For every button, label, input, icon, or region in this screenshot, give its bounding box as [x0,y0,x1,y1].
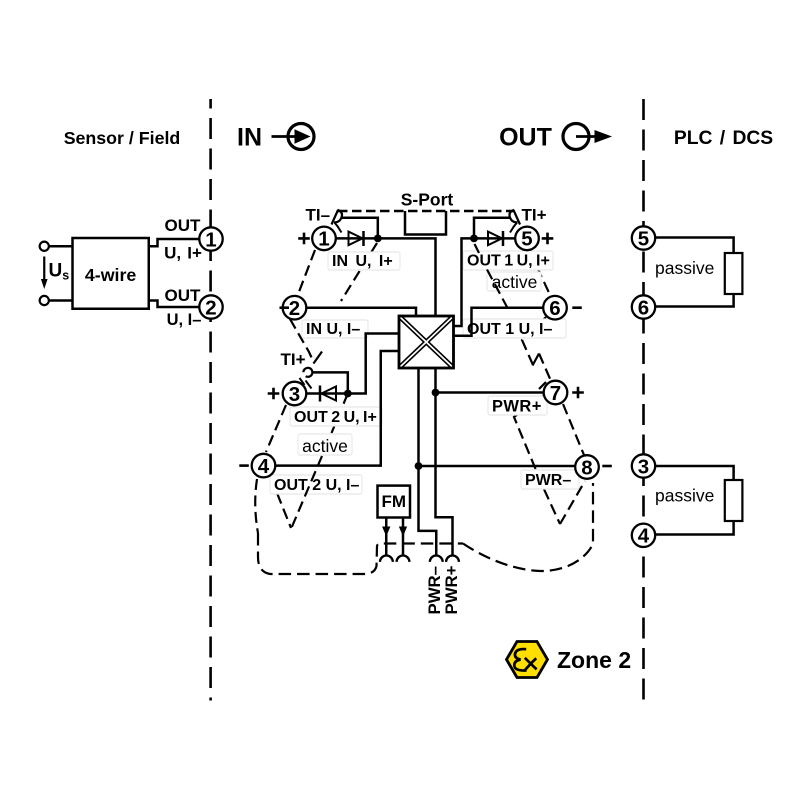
node PLC terminal 3 [632,454,655,477]
wire: source to 4-wire box bottom [49,299,73,302]
svg-text:5: 5 [521,228,532,251]
wire: dashed connector outline bottom [258,533,463,574]
IN header arrow icon [272,135,298,138]
isolator U1 cross [401,318,453,367]
svg-text:S-Port: S-Port [401,190,454,210]
sign + terminal 7 [572,387,584,399]
node terminal 8 [575,455,599,479]
sign - terminal 8 [602,465,612,468]
label background active right [487,272,541,291]
svg-text:1: 1 [318,228,329,251]
svg-text:OUT: OUT [165,216,202,235]
svg-text:PWR+: PWR+ [492,398,542,416]
svg-text:passive: passive [655,258,714,278]
svg-text:TI–: TI– [306,206,331,225]
wire: TI+ tap from junction B [313,372,348,393]
FM socket right [397,556,410,562]
node PLC terminal 4 [632,524,655,547]
diode V3 [488,232,502,246]
wire: dashed connector outline arc to terminal 8 plug [463,483,593,571]
svg-text:3: 3 [638,455,649,478]
FM arrow left [382,527,390,537]
TI+ probe pen at terminal 3 [303,368,312,377]
PWR+ socket [446,556,459,562]
wire: dashed plug notch below terminal 4 [271,478,291,528]
svg-text:6: 6 [638,296,649,319]
node terminal 6 [543,296,567,320]
node PLC terminal 5 [632,226,655,249]
svg-text:4-wire: 4-wire [85,265,137,285]
svg-text:TI+: TI+ [522,206,547,225]
label background OUT 2 U, I- [270,475,362,494]
wire: field-side dashed boundary line [209,99,212,701]
sign - terminal 4 [239,464,249,467]
wire: 4-wire box to field terminal 2 [149,301,200,308]
junction C (output 1) [470,235,478,243]
svg-text:IN: IN [237,124,262,152]
wire: dashed plug link terminal 7 to 8 [563,404,584,455]
wire: dashed link terminal 4 to connector outline [255,479,258,533]
svg-text:passive: passive [655,486,714,506]
wire: TI- tap from junction A [342,218,378,239]
svg-text:Zone 2: Zone 2 [557,647,631,673]
svg-text:U, I+: U, I+ [164,244,202,263]
wire: 4-wire box to field terminal 1 [149,239,200,246]
svg-text:4: 4 [258,455,270,478]
wire: dashed plug notch between terminals 6 and 7 [522,317,546,365]
svg-text:7: 7 [550,382,561,405]
svg-text:U, I–: U, I– [167,311,202,329]
svg-text:FM: FM [381,492,406,511]
isolator U1 box [399,316,454,368]
transmitter 4-wire box [73,238,149,309]
svg-text:PWR+: PWR+ [442,565,461,614]
svg-text:2: 2 [289,297,300,320]
svg-text:1: 1 [205,228,216,251]
svg-text:TI+: TI+ [281,350,306,369]
FM arrow right [399,527,407,537]
wire: terminal 2 to isolator top [307,308,417,316]
wire: PWR- rail to terminal 8 [419,465,576,468]
label background IN U, I+ [328,252,400,270]
wire: passive load 2 loop [655,466,734,535]
label background OUT 1 U, I- [463,319,566,338]
label background OUT 2 U, I+ [290,407,382,426]
wire: S-Port stub [405,211,446,235]
node field terminal 1 [199,227,222,250]
svg-text:4: 4 [638,525,650,548]
wire: terminal 5 through diode V3 to isolator right [454,238,516,326]
svg-text:5: 5 [638,227,649,250]
junction A (input) [374,235,382,243]
source Us arrow [43,257,45,282]
node terminal 1 [312,227,336,251]
sign - terminal 2 [280,306,290,309]
wire: dashed plug outline around terminals 7 and 8 [514,395,560,524]
wire: dashed leader from junction B to plug tip below terminal 4 [291,456,322,529]
wire: terminal 1 through diode V1 to isolator top [336,238,436,316]
wire: S-Port dashed link [338,210,514,212]
wire: PWR- rail [419,368,437,555]
label background PWR+ [488,396,547,415]
wire: dashed leader from junction B upper part [332,394,348,434]
svg-text:OUT 1 U, I+: OUT 1 U, I+ [467,253,550,270]
source Us terminal bottom [40,296,49,305]
diode V1 [349,232,363,246]
svg-text:3: 3 [289,383,300,406]
node terminal 4 [252,454,276,478]
source Us terminal top [40,242,49,251]
node terminal 3 [283,382,307,406]
svg-text:OUT: OUT [499,124,552,152]
label background active left [298,434,352,455]
PWR- socket [430,556,443,562]
sign + terminal 1 [298,233,310,245]
node terminal 7 [544,381,568,405]
label background PWR- [521,470,579,489]
svg-text:6: 6 [549,297,560,320]
svg-text:Sensor / Field: Sensor / Field [64,128,181,148]
svg-text:OUT 1 U, I–: OUT 1 U, I– [467,321,552,338]
sign + terminal 5 [542,233,554,245]
wire: dashed plug link terminal 5 to 6 [537,267,551,297]
wire: source to 4-wire box top [49,245,73,248]
OUT header arrow icon [563,124,589,150]
FM socket left [380,556,393,562]
wire: PWR+ rail to terminal 7 [436,391,545,394]
svg-text:IN U, I–: IN U, I– [306,321,360,338]
sign - terminal 6 [572,306,582,309]
wire: dashed plug link junction to terminal 2 [341,243,377,301]
node field terminal 2 [199,295,222,318]
wire: PWR+ rail [436,368,453,555]
TI+ probe pen at terminal 5 [514,210,521,225]
sign + terminal 3 [268,388,280,400]
svg-text:PLC / DCS: PLC / DCS [674,128,773,149]
wire: PLC-side dashed boundary line [642,99,645,701]
wire: dashed plug link junction C to output wire [475,244,480,253]
svg-text:OUT: OUT [165,286,202,305]
label background OUT 1 U, I+ [463,251,553,270]
svg-text:active: active [492,272,538,292]
wire: terminal 3 through diode V2 to isolator left [307,334,400,394]
wire: FM line left [385,518,388,556]
node PLC terminal 6 [632,295,655,318]
svg-text:8: 8 [581,456,592,479]
svg-text:IN U, I+: IN U, I+ [332,253,393,270]
resistor R1 passive load 1 [725,253,743,294]
wire: dashed plug link terminal 1 to 2 [297,250,315,297]
wire: passive load 1 loop [655,238,734,307]
svg-text:2: 2 [205,296,216,319]
label background IN U, I- [302,320,368,338]
wire: dashed tick at terminal 7 [539,382,546,389]
svg-text:OUT 2 U, I–: OUT 2 U, I– [274,477,359,494]
TI- probe pen [332,210,339,225]
wire: FM line right [402,518,405,556]
junction B (output 2) [344,390,352,398]
wire: dashed plug link terminal 3 to 4 [266,405,286,452]
resistor R2 passive load 2 [725,480,743,521]
junction PWR+ [432,389,440,397]
wire: TI+ tap from junction C [474,218,511,239]
wire: terminal 4 to isolator left [276,351,400,466]
diode V2 [322,387,337,401]
Ex hexagon symbol [507,642,548,678]
wire: isolator right to terminal 6 [454,308,544,336]
wire: dashed plug notch between terminals 2 and 3 [290,319,314,363]
svg-text:PWR–: PWR– [525,472,571,489]
svg-text:OUT 2 U, I+: OUT 2 U, I+ [294,409,377,426]
svg-text:active: active [302,436,348,456]
FM box [378,486,411,518]
junction PWR- [415,462,423,470]
node terminal 5 [515,227,539,251]
node terminal 2 [283,296,307,320]
